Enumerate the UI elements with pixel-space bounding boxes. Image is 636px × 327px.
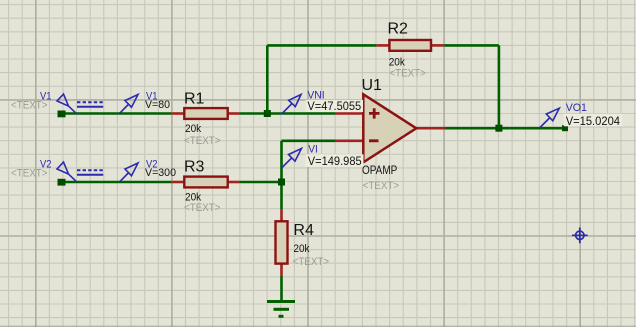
label R3 reference bbox=[184, 158, 205, 175]
label R2 value 20k bbox=[389, 56, 406, 68]
svg-text:<TEXT>: <TEXT> bbox=[293, 256, 330, 268]
wire V1 source to R1 bbox=[62, 112, 171, 115]
node output terminal bbox=[562, 125, 568, 131]
svg-text:<TEXT>: <TEXT> bbox=[184, 202, 221, 214]
generator V2 arrow symbol bbox=[57, 162, 76, 181]
junction node at R1 output bbox=[264, 110, 271, 117]
svg-text:<TEXT>: <TEXT> bbox=[389, 68, 426, 80]
svg-text:<TEXT>: <TEXT> bbox=[11, 168, 48, 180]
wire inverting input vertical bbox=[280, 141, 283, 209]
probe arrow V1 bbox=[120, 95, 139, 114]
wire V2 source to R3 bbox=[62, 181, 171, 184]
generator V2 DC marker bbox=[77, 170, 103, 174]
label VI value V=149.985 bbox=[306, 154, 364, 168]
svg-text:R1: R1 bbox=[184, 90, 205, 107]
resistor R1 bbox=[171, 108, 240, 119]
label V1 generator reference bbox=[40, 90, 52, 102]
probe VO1 arrow bbox=[540, 108, 559, 127]
label U1 property TEXT bbox=[363, 180, 400, 192]
wire R2 to output vertical bbox=[444, 45, 499, 128]
probe arrow V2 bbox=[120, 163, 139, 182]
label R1 property TEXT bbox=[184, 135, 221, 147]
probe VI arrow bbox=[282, 149, 302, 169]
label U1 reference bbox=[362, 77, 383, 94]
resistor R4 bbox=[276, 209, 288, 276]
label V2 value V=300 bbox=[145, 167, 176, 179]
generator V1 DC marker bbox=[77, 102, 103, 106]
svg-text:20k: 20k bbox=[185, 123, 202, 135]
svg-text:V=80: V=80 bbox=[145, 99, 170, 111]
generator V1 arrow symbol bbox=[57, 94, 76, 113]
junction node at output feedback bbox=[495, 125, 502, 132]
svg-text:20k: 20k bbox=[389, 56, 406, 68]
wire op-amp output bbox=[446, 127, 566, 130]
svg-text:V=47.5055: V=47.5055 bbox=[307, 99, 361, 113]
label R3 property TEXT bbox=[184, 202, 221, 214]
label V1 generator property TEXT bbox=[11, 100, 48, 112]
svg-text:<TEXT>: <TEXT> bbox=[184, 135, 221, 147]
junction node at R3 R4 bbox=[278, 179, 285, 186]
label VNI value V=47.5055 bbox=[306, 99, 364, 113]
label V2 generator property TEXT bbox=[11, 168, 48, 180]
svg-text:<TEXT>: <TEXT> bbox=[11, 100, 48, 112]
wire R3 to inverting node bbox=[240, 181, 282, 184]
op-amp U1 bbox=[335, 94, 446, 162]
label R4 property TEXT bbox=[293, 256, 330, 268]
label V2 generator reference bbox=[40, 158, 52, 170]
svg-text:VO1: VO1 bbox=[566, 102, 587, 114]
svg-text:R3: R3 bbox=[184, 158, 205, 175]
wire feedback top to R2 bbox=[267, 44, 376, 47]
wire R4 to ground bbox=[280, 276, 283, 302]
svg-text:V=149.985: V=149.985 bbox=[308, 154, 362, 168]
probe VNI arrow bbox=[282, 95, 301, 115]
svg-text:20k: 20k bbox=[293, 243, 310, 255]
node sheet origin marker bbox=[572, 228, 588, 244]
label U1 value OPAMP bbox=[362, 165, 398, 177]
label R1 value 20k bbox=[185, 123, 202, 135]
label VO1 reference bbox=[566, 102, 587, 114]
svg-text:OPAMP: OPAMP bbox=[362, 165, 398, 177]
label V2 probe reference bbox=[146, 158, 158, 170]
wire inverting input horizontal bbox=[282, 140, 336, 143]
label R1 reference bbox=[184, 90, 205, 107]
label VI reference bbox=[308, 143, 318, 155]
label V1 value V=80 bbox=[145, 99, 170, 111]
wire feedback left vertical bbox=[266, 45, 269, 113]
svg-text:<TEXT>: <TEXT> bbox=[363, 180, 400, 192]
svg-text:R4: R4 bbox=[293, 222, 314, 239]
svg-text:V=300: V=300 bbox=[145, 167, 176, 179]
node V1 origin terminal bbox=[58, 111, 66, 118]
svg-text:V=15.0204: V=15.0204 bbox=[566, 114, 621, 128]
label R3 value 20k bbox=[185, 192, 202, 204]
label V1 probe reference bbox=[146, 90, 158, 102]
svg-text:R2: R2 bbox=[388, 20, 409, 37]
label VO1 value V=15.0204 bbox=[564, 114, 623, 128]
resistor R2 bbox=[376, 40, 444, 51]
svg-text:U1: U1 bbox=[362, 77, 383, 94]
ground bbox=[267, 302, 295, 317]
label VNI reference bbox=[307, 89, 324, 101]
wire R1 to op-amp noninverting input bbox=[240, 112, 335, 115]
resistor R3 bbox=[171, 177, 240, 188]
label R4 reference bbox=[293, 222, 314, 239]
label R2 reference bbox=[388, 20, 409, 37]
label R2 property TEXT bbox=[389, 68, 426, 80]
node V2 origin terminal bbox=[58, 179, 66, 186]
label R4 value 20k bbox=[293, 243, 310, 255]
